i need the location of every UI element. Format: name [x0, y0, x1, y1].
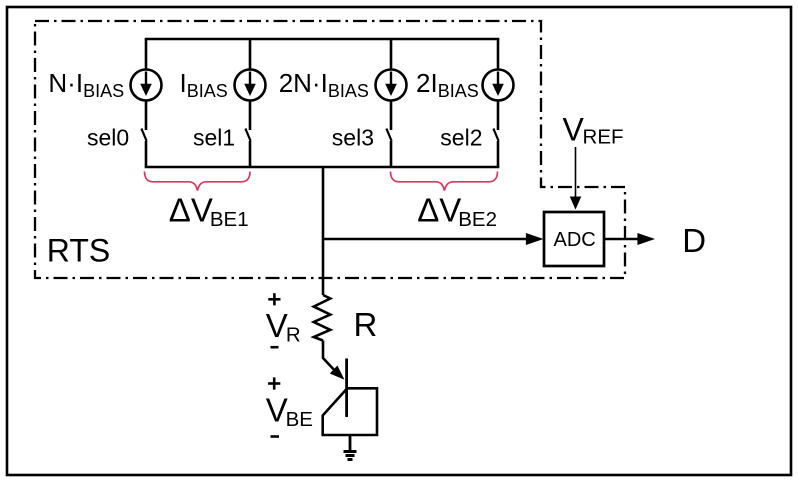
svg-text:IBIAS: IBIAS [180, 68, 228, 101]
svg-text:VBE: VBE [266, 392, 313, 431]
output arrow to D [604, 233, 655, 245]
annotation VBE plus [268, 377, 280, 389]
svg-text:N·IBIAS: N·IBIAS [48, 68, 124, 101]
transistor Q1 emitter arrowhead [330, 366, 345, 380]
RTS boundary (dash-dot box) [35, 21, 625, 278]
wire bottom bus [145, 166, 500, 169]
transistor Q1 emitter wire [323, 341, 337, 374]
resistor R1 [314, 295, 331, 341]
switch sel3 [386, 129, 391, 167]
svg-text:VR: VR [266, 307, 301, 346]
switch sel0 [141, 129, 146, 167]
svg-text:2N·IBIAS: 2N·IBIAS [279, 68, 369, 101]
switch sel1 [245, 129, 250, 167]
wire output node vertical [322, 167, 325, 295]
brace dVBE1 [145, 172, 251, 191]
svg-text:sel0: sel0 [87, 125, 129, 151]
VREF input arrow [570, 147, 582, 210]
annotation VBE minus [271, 435, 280, 438]
svg-text:sel3: sel3 [332, 125, 374, 151]
svg-text:R: R [354, 306, 378, 343]
wire top bus [145, 38, 500, 41]
wire to ADC [323, 238, 527, 241]
current source I4 (2IBIAS) [483, 39, 514, 130]
current source I3 (2N·IBIAS) [376, 39, 407, 130]
svg-text:sel2: sel2 [440, 125, 482, 151]
svg-text:ADC: ADC [554, 229, 596, 251]
switch sel2 [493, 129, 498, 167]
svg-text:sel1: sel1 [193, 125, 235, 151]
arrowhead into ADC [526, 233, 544, 245]
annotation VR plus [268, 293, 280, 305]
transistor Q1 base bar [345, 359, 348, 418]
annotation VR minus [271, 346, 279, 349]
ground [344, 435, 357, 460]
svg-text:D: D [682, 222, 706, 259]
current source I2 (IBIAS) [235, 39, 266, 130]
svg-text:ΔVBE2: ΔVBE2 [417, 191, 497, 231]
brace dVBE2 [391, 172, 498, 191]
svg-text:RTS: RTS [47, 233, 110, 269]
current source I1 (N·IBIAS) [131, 39, 162, 130]
ADC block U1 [544, 212, 604, 266]
svg-text:ΔVBE1: ΔVBE1 [169, 191, 249, 231]
svg-text:VREF: VREF [563, 111, 624, 148]
svg-text:2IBIAS: 2IBIAS [416, 68, 479, 101]
transistor Q1 collector and body box [323, 388, 377, 435]
